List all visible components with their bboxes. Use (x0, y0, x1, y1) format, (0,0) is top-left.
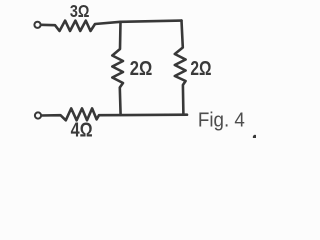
svg-text:2Ω: 2Ω (190, 57, 211, 79)
svg-text:Fig. 4: Fig. 4 (198, 109, 245, 132)
svg-text:2Ω: 2Ω (130, 56, 153, 79)
svg-text:4Ω: 4Ω (71, 119, 93, 138)
svg-text:3Ω: 3Ω (70, 1, 90, 21)
